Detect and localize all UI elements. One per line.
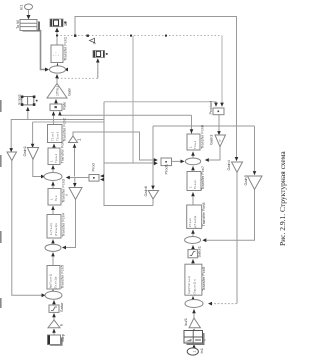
svg-text:k: k — [59, 324, 64, 326]
caption — [278, 151, 287, 246]
svg-text:Gain3: Gain3 — [209, 135, 214, 145]
gain triangle G2 (points up, small) — [69, 136, 78, 143]
svg-text:Transfer Fcn8: Transfer Fcn8 — [201, 202, 206, 226]
block2 — [187, 172, 201, 191]
wire — [192, 193, 194, 206]
wire — [52, 206, 54, 215]
wire — [53, 144, 55, 148]
wire — [28, 10, 30, 17]
svg-text:Transfer Fcn4: Transfer Fcn4 — [61, 212, 66, 237]
svg-text:Satur1: Satur1 — [197, 246, 202, 257]
wire — [75, 17, 237, 161]
wire — [97, 59, 99, 78]
wire — [132, 36, 134, 163]
wire — [53, 329, 55, 335]
svg-text:Gain4: Gain4 — [226, 159, 231, 170]
wire — [204, 190, 255, 241]
svg-text:Gain6: Gain6 — [143, 186, 148, 196]
svg-text:Satur: Satur — [59, 302, 64, 312]
gain triangle (bottom left, points up) — [48, 320, 60, 328]
gain triangle P (points down) — [215, 135, 226, 147]
svg-text:Prod: Prod — [91, 163, 96, 171]
svg-text:Gain: Gain — [67, 88, 72, 96]
transfer fcn TF3 — [48, 148, 60, 165]
block3 — [187, 205, 202, 228]
gain triangle (x=75, points down) — [69, 188, 82, 200]
svg-text:ku/1: ku/1 — [183, 318, 188, 325]
svg-text:Tp.s+1: Tp.s+1 — [54, 153, 58, 163]
transfer fcn TF5 — [47, 215, 61, 239]
rate limiter block — [50, 104, 62, 111]
svg-text:(To.s+1)s: (To.s+1)s — [54, 276, 58, 289]
wire — [104, 102, 153, 206]
transfer fcn TF2 — [48, 125, 63, 143]
svg-text:k·(T.s+1): k·(T.s+1) — [49, 223, 53, 235]
wire — [52, 182, 54, 189]
gain triangle C (points down) — [248, 176, 263, 190]
wire — [27, 108, 29, 120]
wire — [191, 115, 193, 134]
wire — [153, 125, 255, 127]
wire — [193, 310, 195, 319]
svg-text:Tr.s+1: Tr.s+1 — [193, 140, 197, 149]
constant block shadow — [50, 338, 62, 346]
wire — [59, 112, 61, 116]
wire — [192, 230, 194, 237]
wire — [53, 301, 55, 306]
svg-text:kT.s+1: kT.s+1 — [188, 218, 192, 227]
sum junction S1 — [50, 66, 66, 73]
wire — [55, 100, 57, 105]
svg-text:Product: Product — [208, 100, 213, 114]
svg-text:Gain5: Gain5 — [243, 175, 248, 185]
svg-text:In1: In1 — [199, 348, 204, 353]
wire — [52, 253, 54, 266]
wire — [58, 60, 98, 78]
wire — [52, 166, 54, 173]
wire — [33, 159, 43, 176]
wire — [192, 260, 194, 265]
sum junction S2 — [44, 173, 62, 181]
wire — [193, 329, 195, 331]
wire — [221, 36, 223, 106]
to-workspace box shadow — [23, 22, 40, 31]
product2 block (right top) — [213, 108, 224, 115]
wire — [254, 126, 256, 174]
svg-text:Scope1: Scope1 — [17, 94, 21, 105]
to-workspace box — [20, 20, 37, 31]
wire — [104, 162, 156, 164]
junction dots — [74, 35, 76, 37]
wire — [11, 120, 104, 152]
constant block — [48, 335, 61, 345]
source block shadow (bottom right) — [187, 333, 204, 344]
tiny rotated labels — [15, 5, 248, 354]
wire — [74, 178, 76, 187]
gain triangle (feedback, x=33) — [27, 148, 38, 160]
svg-text:Transfer Fcn2: Transfer Fcn2 — [62, 118, 67, 142]
svg-text:Sc: Sc — [64, 22, 68, 26]
svg-text:Prod1: Prod1 — [164, 164, 169, 174]
transfer fcn TF6 — [47, 266, 60, 290]
svg-text:Transfer Fcn7: Transfer Fcn7 — [200, 166, 205, 190]
wire — [60, 114, 192, 116]
scope block (top) — [50, 19, 63, 27]
product block (x=89) — [89, 175, 99, 182]
wire — [52, 240, 54, 245]
svg-text:Gain1: Gain1 — [22, 146, 27, 156]
sum junction S3L — [45, 244, 61, 251]
wire — [56, 29, 58, 45]
svg-text:Rate: Rate — [62, 102, 67, 110]
rate inner — [55, 106, 57, 108]
gain triangle (bottom right, points up) — [189, 318, 200, 328]
wire — [192, 246, 194, 250]
saturation block — [49, 305, 59, 312]
wire — [152, 199, 154, 206]
svg-text:kpc(Tnc.s+1): kpc(Tnc.s+1) — [187, 276, 191, 293]
wire — [57, 35, 222, 37]
svg-text:T1.s+1: T1.s+1 — [51, 131, 55, 141]
left page-edge marks — [0, 100, 2, 308]
wire — [53, 112, 55, 125]
transfer fcn TF7 — [185, 264, 202, 295]
gain triangle (feedback, x=12) — [7, 152, 17, 161]
wire — [236, 172, 238, 303]
svg-text:1/Tm.s: 1/Tm.s — [56, 85, 60, 96]
transfer fcn TF1 — [51, 45, 63, 63]
arrowheads — [9, 15, 256, 348]
product1 block — [161, 158, 172, 166]
svg-text:Transfer Fcn5: Transfer Fcn5 — [60, 265, 65, 289]
svg-text:(T2.s+1)s: (T2.s+1)s — [54, 223, 58, 236]
block1 (right column top) — [187, 134, 200, 150]
sum junction S4 — [185, 300, 203, 308]
svg-text:Transfer Fcn: Transfer Fcn — [60, 142, 65, 164]
svg-text:Transfer Fcn1: Transfer Fcn1 — [63, 37, 68, 61]
wire — [12, 161, 43, 296]
wire — [33, 121, 104, 123]
svg-text:1: 1 — [193, 351, 197, 353]
output port oval (bottom right) — [187, 348, 198, 355]
wire — [192, 297, 194, 300]
wire — [152, 126, 154, 189]
svg-text:Transfer Fcn9: Transfer Fcn9 — [201, 267, 206, 291]
wire — [32, 122, 34, 147]
wire — [37, 31, 46, 70]
wire — [101, 176, 104, 180]
wire — [74, 144, 76, 177]
wire — [218, 115, 220, 134]
saturation block 2 — [188, 250, 197, 258]
integrator block — [48, 189, 61, 206]
wire — [56, 75, 58, 84]
annotation glyph near scope2 — [90, 38, 95, 42]
scope2 — [93, 51, 105, 58]
sum junction S3R — [185, 237, 201, 244]
input port oval (top left) — [25, 4, 33, 10]
svg-text:kp(Tu.s+1): kp(Tu.s+1) — [49, 274, 53, 288]
svg-text:To W: To W — [15, 20, 20, 29]
svg-text:. : .: . : . — [53, 52, 60, 58]
svg-text:Transfer Fcn6: Transfer Fcn6 — [200, 125, 205, 149]
sum junction S2R — [185, 158, 200, 165]
wire — [67, 177, 89, 179]
svg-text:Ts.s: Ts.s — [54, 195, 58, 201]
svg-text:Step: Step — [60, 334, 65, 342]
svg-text:Transfer Fcn3: Transfer Fcn3 — [61, 179, 66, 203]
source block (bottom right) — [184, 331, 203, 344]
gain triangle B (points down) — [232, 162, 243, 172]
wire — [57, 63, 59, 66]
sum junction S5 — [45, 291, 62, 299]
wire — [73, 132, 156, 160]
wire — [206, 147, 220, 160]
wire — [52, 290, 54, 292]
svg-text:y(T.s+1)s: y(T.s+1)s — [193, 215, 197, 228]
wire — [53, 314, 55, 321]
svg-text:Ts.s+1: Ts.s+1 — [193, 180, 197, 189]
svg-text:(Tqc.s+1)·s: (Tqc.s+1)·s — [193, 279, 197, 295]
wire — [193, 345, 195, 348]
gain triangle (x=153, points down) — [148, 191, 158, 200]
svg-text:u: u — [65, 194, 69, 196]
wire — [192, 167, 194, 172]
wire — [63, 200, 76, 248]
wire — [172, 160, 184, 162]
gain triangle G1 (points up) — [47, 84, 67, 99]
wire — [192, 152, 194, 158]
svg-text:P: P — [218, 139, 222, 141]
svg-text:T2.s+1: T2.s+1 — [56, 131, 60, 141]
scope1 (left) — [22, 97, 34, 105]
svg-text:In1: In1 — [19, 5, 24, 10]
